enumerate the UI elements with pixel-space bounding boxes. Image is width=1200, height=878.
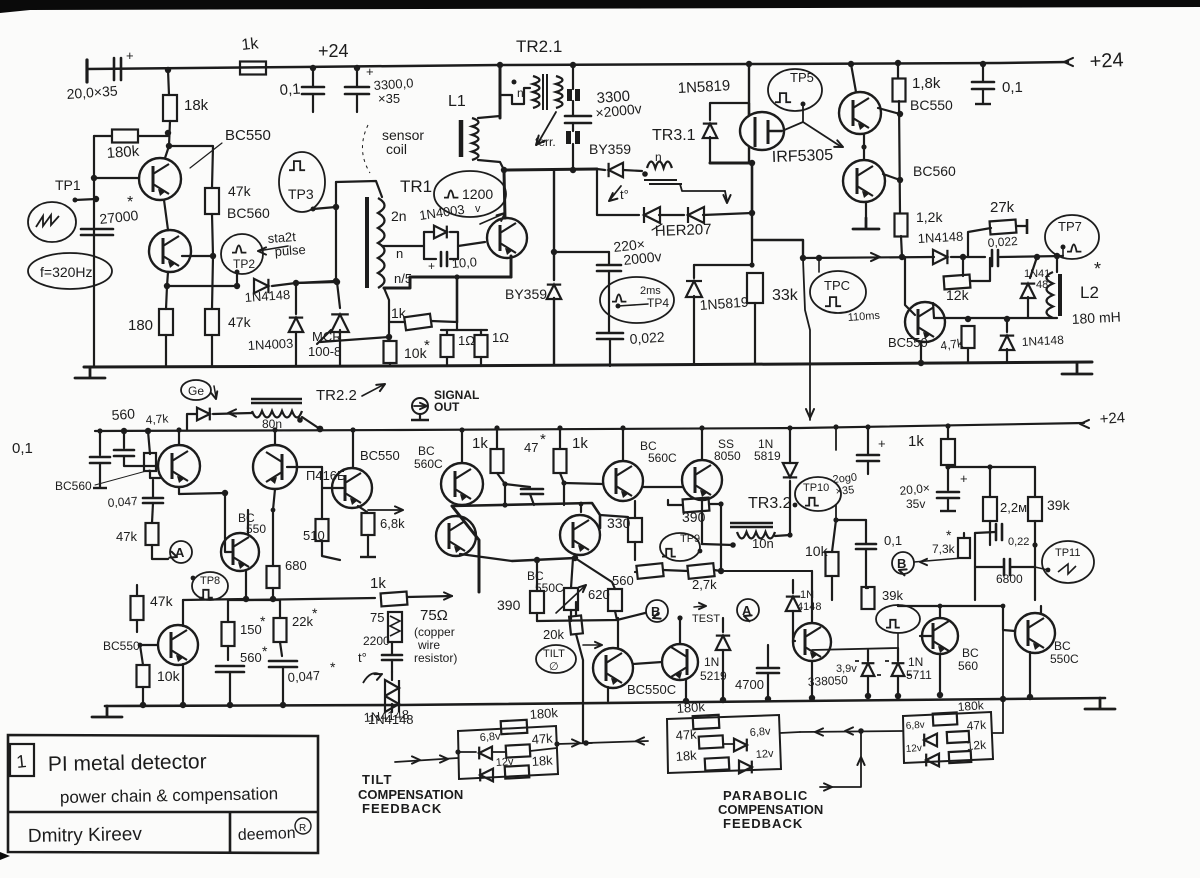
svg-text:75: 75 xyxy=(370,610,384,625)
svg-text:BC560: BC560 xyxy=(913,163,956,179)
svg-text:680: 680 xyxy=(285,558,307,573)
wire mosfet drain xyxy=(710,162,752,165)
capacitor 0,047 mid xyxy=(143,498,163,503)
wire q17 coll xyxy=(580,504,582,512)
transformer TR1 winding xyxy=(378,198,385,288)
wire 620 top xyxy=(571,558,573,588)
transformer TR3.2 core xyxy=(730,523,773,527)
wire mcr lead xyxy=(337,282,340,308)
resistor 47k fb1 xyxy=(506,744,531,757)
wire 10kc a xyxy=(140,645,143,665)
svg-text:TP1: TP1 xyxy=(55,177,81,193)
svg-text:+24: +24 xyxy=(1099,409,1126,428)
wire q12 top xyxy=(679,618,681,644)
svg-text:TR3.1: TR3.1 xyxy=(652,127,696,144)
transformer TR2.1 winding b xyxy=(556,76,563,108)
wire 10kc b xyxy=(142,687,144,705)
svg-text:TR2.2: TR2.2 xyxy=(316,387,357,404)
wire arrow31 xyxy=(725,191,727,201)
wire q10 em xyxy=(358,506,367,512)
node 861 xyxy=(858,728,864,734)
wire tp4 xyxy=(618,304,648,306)
wire 330 b xyxy=(634,542,636,560)
oval TP12 xyxy=(876,605,920,633)
resistor 1ohm b xyxy=(475,335,488,357)
wire q13 top xyxy=(461,430,463,463)
node 606 xyxy=(938,604,943,609)
node tr1 bot j xyxy=(333,278,339,284)
svg-text:1k: 1k xyxy=(472,435,488,452)
transformer TR3.2 winding xyxy=(737,532,775,539)
pulse TP12 xyxy=(886,620,900,628)
svg-text:2,7k: 2,7k xyxy=(692,577,717,592)
diode 1N4148 b xyxy=(933,250,947,264)
svg-text:1,8k: 1,8k xyxy=(912,75,941,92)
scan edge top xyxy=(0,0,1200,13)
wire 0047 a xyxy=(152,480,154,497)
wire 10kb b xyxy=(831,576,833,600)
wire q20 em xyxy=(939,654,941,695)
resistor 180k fb1 xyxy=(501,720,528,734)
node y258 xyxy=(800,255,806,261)
mosfet IRF5305 xyxy=(740,103,784,163)
cap end bar 01 xyxy=(93,487,107,489)
wire q19 coll xyxy=(811,571,813,622)
resistor 6,8k xyxy=(362,513,375,535)
svg-text:550C: 550C xyxy=(1050,652,1079,666)
wire 390b top xyxy=(536,560,538,591)
resistor 1k TR1 xyxy=(404,314,432,330)
node rail q4 xyxy=(848,61,854,67)
wire 0,1 lead2 xyxy=(312,94,314,112)
node c01r xyxy=(980,61,986,67)
arrow rail2 xyxy=(1080,420,1089,428)
resistor 180k fb3 xyxy=(933,712,958,725)
wire x900 e xyxy=(901,236,902,257)
transistor Q14 BC560C b xyxy=(603,461,643,501)
wire 18k top xyxy=(168,70,169,95)
node q8 em xyxy=(243,596,249,602)
svg-text:39k: 39k xyxy=(1047,497,1071,513)
node 1kd xyxy=(945,423,950,428)
wire q5 coll xyxy=(883,174,900,180)
wire q14 q15 link xyxy=(643,486,682,488)
svg-text:0,22: 0,22 xyxy=(1008,536,1029,548)
diode 1N4148 a xyxy=(254,279,268,293)
wire thick y170 xyxy=(504,169,597,170)
capacitor 6800 xyxy=(1004,559,1010,575)
svg-text:n: n xyxy=(396,246,403,261)
node q13 top xyxy=(459,427,464,432)
oval f=320Hz xyxy=(28,253,112,289)
transistor Q1 BC550 xyxy=(139,158,181,200)
oval TP5 xyxy=(768,69,822,111)
wire q19 base xyxy=(793,640,795,642)
wire tilt arrow xyxy=(583,644,600,646)
node 2000 xyxy=(865,424,870,429)
node q9 top xyxy=(272,427,277,432)
terminal 27k xyxy=(1026,219,1029,234)
wire 01low link xyxy=(836,519,866,521)
svg-text:BC: BC xyxy=(962,646,979,660)
wire x721 xyxy=(720,504,722,571)
wire tr22 out xyxy=(302,417,320,429)
node y560 a xyxy=(534,557,540,563)
capacitor 0,1 low xyxy=(856,544,876,549)
oval TILT xyxy=(536,645,576,673)
wire 390b bot xyxy=(536,613,538,621)
wire fb2 r1 xyxy=(723,743,733,745)
svg-text:BC550: BC550 xyxy=(225,127,271,144)
svg-text:IRF5305: IRF5305 xyxy=(772,147,834,166)
resistor 12k xyxy=(944,275,971,290)
wire 47k mid xyxy=(212,214,213,309)
diode 1N5219 xyxy=(716,636,730,650)
arrow parab up xyxy=(857,757,864,765)
wire tr31 out xyxy=(680,184,725,191)
transistor Q5 BC560 r xyxy=(843,160,885,202)
svg-text:0,047: 0,047 xyxy=(287,668,321,685)
svg-text:12v: 12v xyxy=(755,748,774,761)
resistor 27k xyxy=(990,220,1017,235)
svg-text:150: 150 xyxy=(240,622,262,637)
svg-text:80n: 80n xyxy=(262,417,282,431)
node 1ka bot xyxy=(502,481,507,486)
wire box bot r xyxy=(450,258,458,260)
svg-text:0,1: 0,1 xyxy=(279,81,301,99)
svg-text:+24: +24 xyxy=(318,41,349,61)
node q21 em xyxy=(1027,694,1033,700)
wire 27k2 r xyxy=(714,570,721,571)
pulse TP5 xyxy=(775,93,791,102)
node q12 em xyxy=(683,698,689,704)
wire y599 left xyxy=(183,599,246,600)
svg-text:L1: L1 xyxy=(448,93,466,110)
wire 1k left xyxy=(389,321,405,323)
wire thick elbow xyxy=(452,506,479,592)
diode zener 6,8 fb1 xyxy=(479,747,492,760)
inductor L1 core xyxy=(459,120,464,157)
wire q5 emitter xyxy=(865,202,867,218)
svg-text:390: 390 xyxy=(497,597,521,613)
wire q6 base xyxy=(905,257,915,315)
node 1kb bot xyxy=(561,480,566,485)
svg-text:6,8v: 6,8v xyxy=(905,720,925,732)
svg-text:t°: t° xyxy=(620,187,629,202)
svg-text:27k: 27k xyxy=(990,199,1015,216)
svg-text:6800: 6800 xyxy=(996,572,1023,586)
svg-text:1Ω: 1Ω xyxy=(492,330,509,345)
wire 1ohm a bot xyxy=(446,357,448,366)
wire q6 coll xyxy=(933,303,934,318)
wire 2,2m a xyxy=(989,467,991,497)
svg-text:1N4148: 1N4148 xyxy=(363,707,409,725)
resistor 47k mid2 xyxy=(146,523,159,545)
node base Q1 xyxy=(91,175,97,181)
transistor Q12 xyxy=(662,644,698,680)
wire tp11 lead xyxy=(1035,567,1048,570)
wire TR1 left vert xyxy=(335,182,337,281)
wire q8 em xyxy=(245,570,247,599)
arrow tr21 xyxy=(533,136,545,148)
resistor 22k xyxy=(274,618,287,642)
transistor Q9 P416 xyxy=(253,445,297,489)
wire x900 a xyxy=(897,63,899,78)
spike 1200 xyxy=(444,190,458,197)
wire q4 emitter xyxy=(863,134,865,160)
node n dot xyxy=(512,80,517,85)
wire z2 b xyxy=(897,676,899,696)
wire 150 b xyxy=(227,646,229,660)
ground lower left xyxy=(92,706,122,717)
capacitor 10,0 xyxy=(441,252,447,266)
wire 5819 bot xyxy=(709,137,711,163)
svg-text:(copper: (copper xyxy=(414,625,455,639)
wire q11 coll xyxy=(617,618,619,648)
diode 1N5819 c xyxy=(783,463,797,477)
wire her pointer xyxy=(652,224,662,230)
titleblock outer xyxy=(8,735,318,853)
node q7 em xyxy=(222,490,228,496)
node 1kd b xyxy=(945,464,950,469)
svg-text:*: * xyxy=(312,605,318,621)
svg-text:0,022: 0,022 xyxy=(629,329,665,347)
svg-text:TP2: TP2 xyxy=(233,257,255,271)
arrow fb1 out xyxy=(572,739,580,746)
wire 5819c a xyxy=(789,428,791,463)
wire tp10 down xyxy=(835,505,837,520)
arrow pot xyxy=(579,583,588,592)
svg-text:0,1: 0,1 xyxy=(884,533,902,548)
wire c33 bot xyxy=(572,144,574,170)
diode HER207 a xyxy=(644,207,660,223)
svg-text:TR1: TR1 xyxy=(400,177,432,196)
wire c0022 bot xyxy=(609,339,611,366)
wire 22k b xyxy=(280,642,282,656)
inductor L2 xyxy=(1047,272,1054,318)
wire 2000 a xyxy=(867,427,869,454)
svg-text:560: 560 xyxy=(111,405,136,423)
node tp4 xyxy=(616,304,621,309)
node 0047s xyxy=(280,702,286,708)
node rail2 a xyxy=(317,426,324,433)
wire q18 base xyxy=(140,644,158,646)
wire 01 stub xyxy=(99,431,101,455)
svg-text:10k: 10k xyxy=(157,668,181,684)
wire fb in xyxy=(395,758,458,762)
wire 47r bot xyxy=(967,348,969,362)
wire 510 a xyxy=(321,467,323,519)
svg-text:47k: 47k xyxy=(228,314,252,330)
node circle A1 xyxy=(170,541,192,563)
svg-text:47k: 47k xyxy=(531,731,553,747)
spike TP2 xyxy=(232,245,246,252)
node TP1 term xyxy=(73,198,78,203)
wire fb23 xyxy=(800,731,902,732)
wire c01r b xyxy=(982,89,984,104)
wire 01low b xyxy=(865,549,867,588)
svg-text:6,8v: 6,8v xyxy=(479,731,501,744)
wire 01low a xyxy=(865,520,867,543)
node x900 c xyxy=(897,111,903,117)
node q12 top xyxy=(677,615,682,620)
wire 18k bottom xyxy=(165,121,170,158)
node tp10 xyxy=(793,503,798,508)
svg-text:HER207: HER207 xyxy=(655,221,712,240)
wire 150 a xyxy=(227,600,229,622)
resistor 150 xyxy=(222,622,235,646)
wire parab up xyxy=(820,731,861,787)
wire row 467 xyxy=(948,466,1035,468)
wire q16 em xyxy=(460,554,512,561)
svg-text:18k: 18k xyxy=(531,753,553,769)
svg-text:*: * xyxy=(262,643,268,659)
wire 27k r xyxy=(1016,225,1026,227)
ferrite bead top xyxy=(567,89,572,101)
node 560s xyxy=(227,702,233,708)
wire gate xyxy=(782,104,803,131)
capacitor 0,022 mid xyxy=(597,333,623,339)
wire 390a l xyxy=(668,500,683,505)
node TP2 term xyxy=(235,270,240,275)
arrow A1 xyxy=(169,552,178,560)
wire fb3 out xyxy=(992,732,1003,734)
arrow y258 xyxy=(871,253,880,261)
pulse TPC xyxy=(825,297,841,306)
wire ge arrow xyxy=(214,386,216,397)
wire tr21 n loop xyxy=(500,85,530,104)
svg-text:110ms: 110ms xyxy=(847,310,880,324)
feedback network 3 frame xyxy=(903,712,993,763)
svg-text:×2000v: ×2000v xyxy=(595,100,643,121)
capacitor 0,1 top xyxy=(302,87,324,94)
wire 1ohm b top xyxy=(480,330,482,335)
resistor x 560b xyxy=(608,589,622,611)
wire 560b r xyxy=(663,570,688,571)
wire q6 em xyxy=(920,342,922,363)
ground upper left xyxy=(75,367,105,378)
wire q8 base xyxy=(225,493,231,552)
node TP1 junction xyxy=(93,196,99,202)
svg-text:7,3k: 7,3k xyxy=(932,542,956,556)
wire q9 top xyxy=(274,430,276,445)
wire 560 cap b xyxy=(124,456,158,466)
diode 1N4148 c xyxy=(1021,284,1035,298)
node tp3 j xyxy=(333,204,339,210)
wire tpc lead xyxy=(818,258,820,272)
wire x554 xyxy=(553,170,555,280)
arrow q10 xyxy=(395,506,403,513)
ground lower right xyxy=(1085,698,1115,709)
wire 10kb a xyxy=(832,520,836,552)
svg-text:+24: +24 xyxy=(1089,49,1124,73)
svg-text:560: 560 xyxy=(958,659,978,673)
wire TP2 lead xyxy=(236,272,238,286)
wire mcr bottom xyxy=(339,330,341,366)
node 5819b xyxy=(749,262,754,267)
resistor 180k xyxy=(112,130,138,143)
diode 1N4148 d xyxy=(1000,336,1014,350)
arrow ge xyxy=(211,391,219,399)
wire ge stub xyxy=(187,414,197,430)
wire 510 b xyxy=(322,541,340,560)
svg-text:1k: 1k xyxy=(391,305,407,321)
diode 1N5819 a xyxy=(703,124,717,138)
node z2 xyxy=(895,693,901,699)
svg-text:39k: 39k xyxy=(882,588,903,603)
capacitor 0,1 right xyxy=(972,82,994,89)
node q6 em xyxy=(918,360,924,366)
svg-text:1N: 1N xyxy=(908,655,923,669)
svg-text:180: 180 xyxy=(128,317,153,334)
node q19 em xyxy=(809,695,815,701)
svg-text:TP4: TP4 xyxy=(647,296,669,310)
wire 560s b xyxy=(229,672,231,705)
node tp5 xyxy=(801,102,806,107)
svg-text:*: * xyxy=(330,659,336,675)
arrow fb23 a xyxy=(815,728,823,735)
wire 1N4003 bot xyxy=(295,332,297,366)
svg-text:TILT: TILT xyxy=(543,648,565,660)
wire c220 bot xyxy=(608,271,610,332)
transistor Q4 BC550 r xyxy=(839,92,881,134)
svg-text:338050: 338050 xyxy=(807,673,848,689)
wire ground rail lower xyxy=(105,698,1105,706)
svg-text:1k: 1k xyxy=(370,575,386,592)
wire q15 top xyxy=(701,428,703,460)
wire box left xyxy=(423,232,425,259)
capacitor 0,1 mid xyxy=(90,457,110,463)
node mos xyxy=(749,160,755,166)
transistor Q15 SS8050 xyxy=(682,460,722,500)
diode zener 6,8 fb2 xyxy=(734,739,747,752)
wire gate2 xyxy=(803,122,840,146)
svg-text:2n: 2n xyxy=(391,208,407,224)
wire 2,2m b xyxy=(989,521,991,545)
svg-text:4,7k: 4,7k xyxy=(145,411,170,427)
node 389 xyxy=(386,334,392,340)
svg-text:1N4148: 1N4148 xyxy=(917,229,963,246)
node q18 base xyxy=(138,643,143,648)
wire +24 rail 2 xyxy=(95,423,1084,431)
node A1 xyxy=(165,67,171,73)
wire L1 bottom xyxy=(478,160,504,170)
wire tap n xyxy=(382,245,424,247)
arrow tr22 xyxy=(376,381,387,391)
wire x389 xyxy=(384,288,389,337)
wire 5819b bot xyxy=(693,296,695,364)
arrow test xyxy=(699,603,706,609)
arrow B2 xyxy=(898,567,907,575)
svg-text:Ge: Ge xyxy=(188,384,204,398)
svg-text:18k: 18k xyxy=(184,97,209,114)
sawtooth waveform xyxy=(36,215,59,227)
wire q11 em xyxy=(607,687,609,701)
transistor Q17 xyxy=(560,515,600,555)
resistor 39k a xyxy=(1028,497,1042,521)
capacitor 3300x35 xyxy=(345,87,369,94)
diode 1N5819 b xyxy=(686,281,702,297)
oval 1200 xyxy=(434,171,506,217)
wire 1k right xyxy=(431,321,457,322)
node r2 a xyxy=(121,428,127,434)
transistor Q21 BC550C xyxy=(1015,613,1055,653)
resistor 10k c xyxy=(137,665,150,687)
wire pot arrow xyxy=(556,585,586,613)
node A3 xyxy=(166,143,172,149)
wire 01 mid b xyxy=(99,463,101,487)
wire q20 top xyxy=(939,606,941,618)
